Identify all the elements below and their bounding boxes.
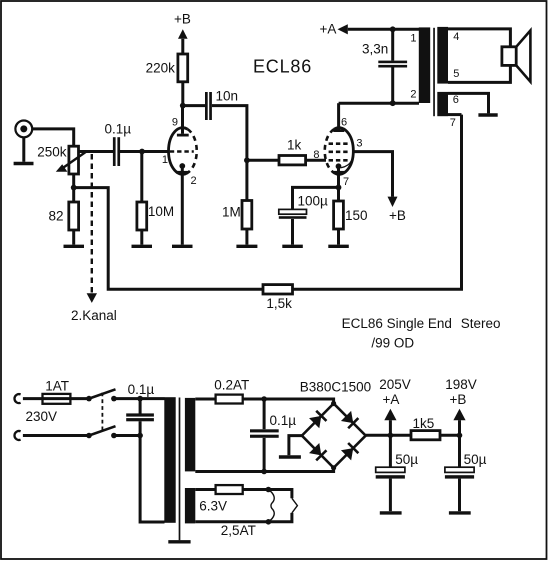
- svg-text:1k: 1k: [287, 138, 302, 153]
- svg-text:82: 82: [48, 209, 63, 224]
- svg-text:1M: 1M: [222, 204, 241, 219]
- svg-text:+A: +A: [320, 21, 337, 36]
- svg-text:6: 6: [341, 117, 347, 129]
- svg-text:7: 7: [343, 176, 349, 188]
- svg-text:250k: 250k: [37, 145, 67, 160]
- svg-text:1: 1: [162, 154, 168, 166]
- svg-text:/99 OD: /99 OD: [371, 336, 414, 351]
- svg-text:50µ: 50µ: [395, 452, 418, 467]
- svg-text:6.3V: 6.3V: [199, 499, 227, 514]
- svg-text:3,3n: 3,3n: [362, 42, 388, 57]
- svg-text:150: 150: [345, 208, 368, 223]
- svg-text:Stereo: Stereo: [461, 316, 501, 331]
- svg-text:1k5: 1k5: [413, 416, 435, 431]
- svg-text:100µ: 100µ: [298, 194, 329, 209]
- svg-text:6: 6: [453, 94, 459, 106]
- svg-text:0.2AT: 0.2AT: [214, 378, 249, 393]
- svg-text:0.1µ: 0.1µ: [270, 413, 297, 428]
- svg-text:0.1µ: 0.1µ: [128, 382, 155, 397]
- svg-text:+B: +B: [389, 208, 406, 223]
- svg-text:ECL86 Single End: ECL86 Single End: [342, 316, 452, 331]
- svg-text:5: 5: [453, 68, 459, 80]
- svg-text:1AT: 1AT: [45, 379, 69, 394]
- svg-text:220k: 220k: [146, 61, 176, 76]
- svg-text:2,5AT: 2,5AT: [221, 523, 256, 538]
- svg-text:2.Kanal: 2.Kanal: [71, 308, 117, 323]
- svg-text:0.1µ: 0.1µ: [105, 122, 132, 137]
- svg-text:+A: +A: [383, 392, 400, 407]
- svg-text:205V: 205V: [379, 377, 411, 392]
- svg-text:1: 1: [410, 33, 416, 45]
- svg-text:10n: 10n: [216, 89, 239, 104]
- svg-text:1,5k: 1,5k: [266, 296, 292, 311]
- svg-text:8: 8: [313, 149, 319, 161]
- svg-text:ECL86: ECL86: [253, 56, 312, 76]
- svg-text:50µ: 50µ: [464, 452, 487, 467]
- svg-text:198V: 198V: [445, 377, 477, 392]
- svg-text:4: 4: [453, 31, 459, 43]
- svg-text:2: 2: [410, 88, 416, 100]
- svg-text:+B: +B: [174, 12, 191, 27]
- svg-text:+B: +B: [450, 392, 467, 407]
- svg-text:230V: 230V: [26, 409, 58, 424]
- svg-text:9: 9: [172, 117, 178, 129]
- svg-text:10M: 10M: [148, 204, 174, 219]
- svg-text:3: 3: [356, 137, 362, 149]
- svg-text:2: 2: [191, 175, 197, 187]
- svg-text:B380C1500: B380C1500: [300, 379, 371, 394]
- svg-text:7: 7: [450, 117, 456, 129]
